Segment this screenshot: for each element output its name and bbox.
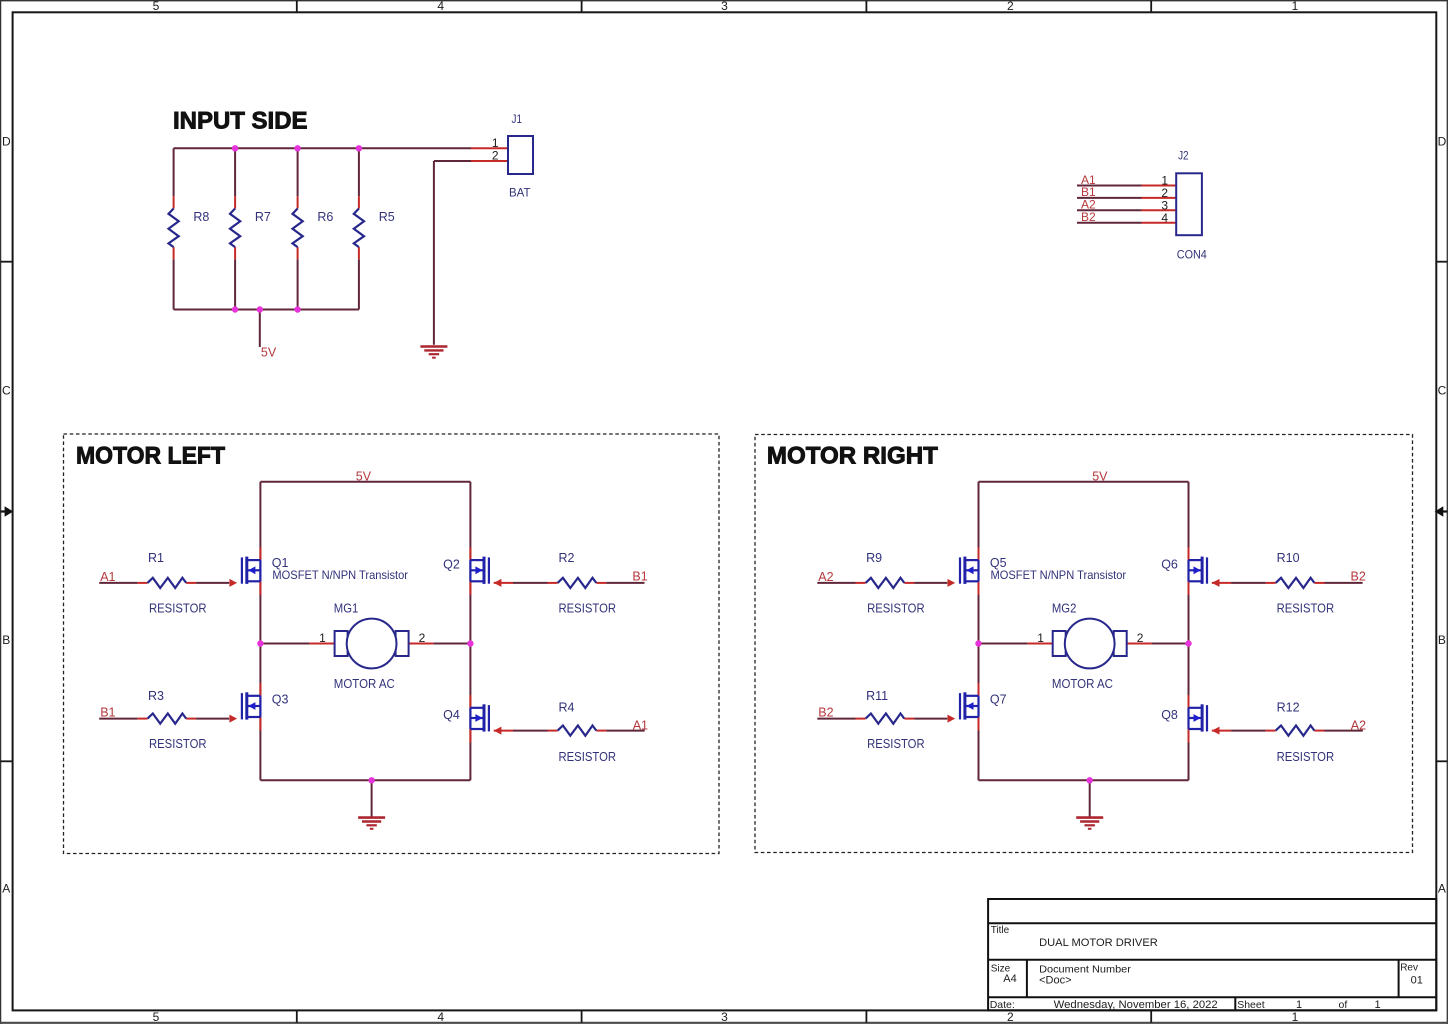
- svg-text:2: 2: [419, 631, 426, 645]
- svg-text:R3: R3: [148, 689, 164, 703]
- svg-text:B1: B1: [632, 569, 647, 583]
- svg-text:5: 5: [153, 0, 160, 13]
- svg-text:B: B: [2, 633, 10, 647]
- svg-text:B2: B2: [818, 706, 833, 720]
- svg-text:Sheet: Sheet: [1237, 999, 1265, 1011]
- svg-text:CON4: CON4: [1177, 247, 1207, 261]
- svg-text:RESISTOR: RESISTOR: [867, 737, 925, 751]
- svg-text:A1: A1: [100, 570, 115, 584]
- svg-text:MG2: MG2: [1052, 601, 1077, 615]
- svg-text:RESISTOR: RESISTOR: [1277, 750, 1335, 764]
- svg-text:R9: R9: [866, 551, 882, 565]
- svg-text:D: D: [1438, 134, 1447, 148]
- svg-text:R5: R5: [379, 210, 395, 224]
- svg-text:5V: 5V: [261, 345, 277, 359]
- svg-text:1: 1: [319, 631, 326, 645]
- svg-text:3: 3: [721, 0, 728, 13]
- svg-text:J1: J1: [512, 112, 523, 126]
- svg-text:01: 01: [1411, 975, 1423, 987]
- svg-text:B: B: [1438, 633, 1446, 647]
- svg-text:Q7: Q7: [990, 693, 1007, 707]
- svg-text:R6: R6: [317, 210, 333, 224]
- svg-text:RESISTOR: RESISTOR: [559, 750, 617, 764]
- svg-text:A2: A2: [818, 570, 833, 584]
- svg-text:C: C: [2, 383, 11, 397]
- svg-text:A: A: [1438, 881, 1446, 895]
- svg-text:5V: 5V: [356, 470, 372, 484]
- svg-text:R11: R11: [866, 689, 888, 703]
- svg-text:B1: B1: [100, 706, 115, 720]
- svg-text:BAT: BAT: [509, 185, 531, 199]
- svg-text:B2: B2: [1081, 210, 1096, 224]
- svg-text:Rev: Rev: [1400, 963, 1418, 974]
- svg-text:MOTOR LEFT: MOTOR LEFT: [76, 442, 225, 469]
- svg-text:RESISTOR: RESISTOR: [559, 601, 617, 615]
- svg-text:MOTOR AC: MOTOR AC: [1052, 677, 1113, 691]
- svg-text:MOTOR AC: MOTOR AC: [334, 677, 395, 691]
- svg-text:A2: A2: [1351, 719, 1366, 733]
- svg-text:Q2: Q2: [443, 557, 460, 571]
- svg-text:4: 4: [437, 1010, 444, 1024]
- svg-text:Q8: Q8: [1161, 708, 1178, 722]
- svg-text:B2: B2: [1351, 569, 1366, 583]
- svg-text:R12: R12: [1277, 701, 1300, 715]
- svg-text:2: 2: [1137, 631, 1144, 645]
- svg-text:C: C: [1438, 383, 1447, 397]
- svg-text:A1: A1: [633, 719, 648, 733]
- svg-text:R10: R10: [1277, 551, 1300, 565]
- svg-text:MOSFET N/NPN Transistor: MOSFET N/NPN Transistor: [272, 568, 408, 582]
- svg-text:Q3: Q3: [272, 693, 289, 707]
- svg-text:1: 1: [1292, 1010, 1299, 1024]
- svg-text:Q4: Q4: [443, 708, 460, 722]
- svg-text:Wednesday, November 16, 2022: Wednesday, November 16, 2022: [1054, 999, 1218, 1011]
- svg-text:RESISTOR: RESISTOR: [149, 601, 207, 615]
- svg-text:J2: J2: [1178, 149, 1189, 163]
- svg-text:2: 2: [1007, 0, 1014, 13]
- svg-text:RESISTOR: RESISTOR: [149, 737, 207, 751]
- svg-text:Q6: Q6: [1161, 557, 1178, 571]
- svg-text:DUAL MOTOR DRIVER: DUAL MOTOR DRIVER: [1039, 937, 1158, 949]
- svg-text:1: 1: [1296, 999, 1302, 1011]
- svg-text:1: 1: [1037, 631, 1044, 645]
- svg-text:<Doc>: <Doc>: [1039, 975, 1071, 987]
- svg-text:INPUT SIDE: INPUT SIDE: [173, 108, 308, 135]
- svg-text:2: 2: [492, 149, 499, 163]
- svg-text:R4: R4: [559, 701, 575, 715]
- svg-text:1: 1: [1374, 999, 1380, 1011]
- svg-text:MG1: MG1: [334, 601, 359, 615]
- svg-text:1: 1: [1292, 0, 1299, 13]
- svg-text:5: 5: [153, 1010, 160, 1024]
- svg-text:2: 2: [1007, 1010, 1014, 1024]
- svg-text:MOSFET N/NPN Transistor: MOSFET N/NPN Transistor: [991, 568, 1127, 582]
- svg-text:R8: R8: [193, 210, 209, 224]
- svg-text:4: 4: [1161, 211, 1168, 225]
- svg-text:Title: Title: [991, 925, 1010, 936]
- svg-text:RESISTOR: RESISTOR: [1277, 601, 1335, 615]
- svg-text:Document Number: Document Number: [1039, 963, 1131, 975]
- svg-text:5V: 5V: [1092, 470, 1108, 484]
- svg-text:3: 3: [721, 1010, 728, 1024]
- svg-text:A: A: [2, 881, 10, 895]
- svg-text:Date:: Date:: [990, 999, 1015, 1011]
- svg-text:R2: R2: [559, 551, 575, 565]
- svg-text:RESISTOR: RESISTOR: [867, 601, 925, 615]
- svg-text:R7: R7: [255, 210, 271, 224]
- svg-text:of: of: [1339, 999, 1348, 1011]
- svg-text:MOTOR RIGHT: MOTOR RIGHT: [767, 442, 938, 469]
- svg-text:A4: A4: [1003, 973, 1016, 985]
- svg-text:4: 4: [437, 0, 444, 13]
- svg-text:D: D: [2, 134, 11, 148]
- svg-text:R1: R1: [148, 551, 164, 565]
